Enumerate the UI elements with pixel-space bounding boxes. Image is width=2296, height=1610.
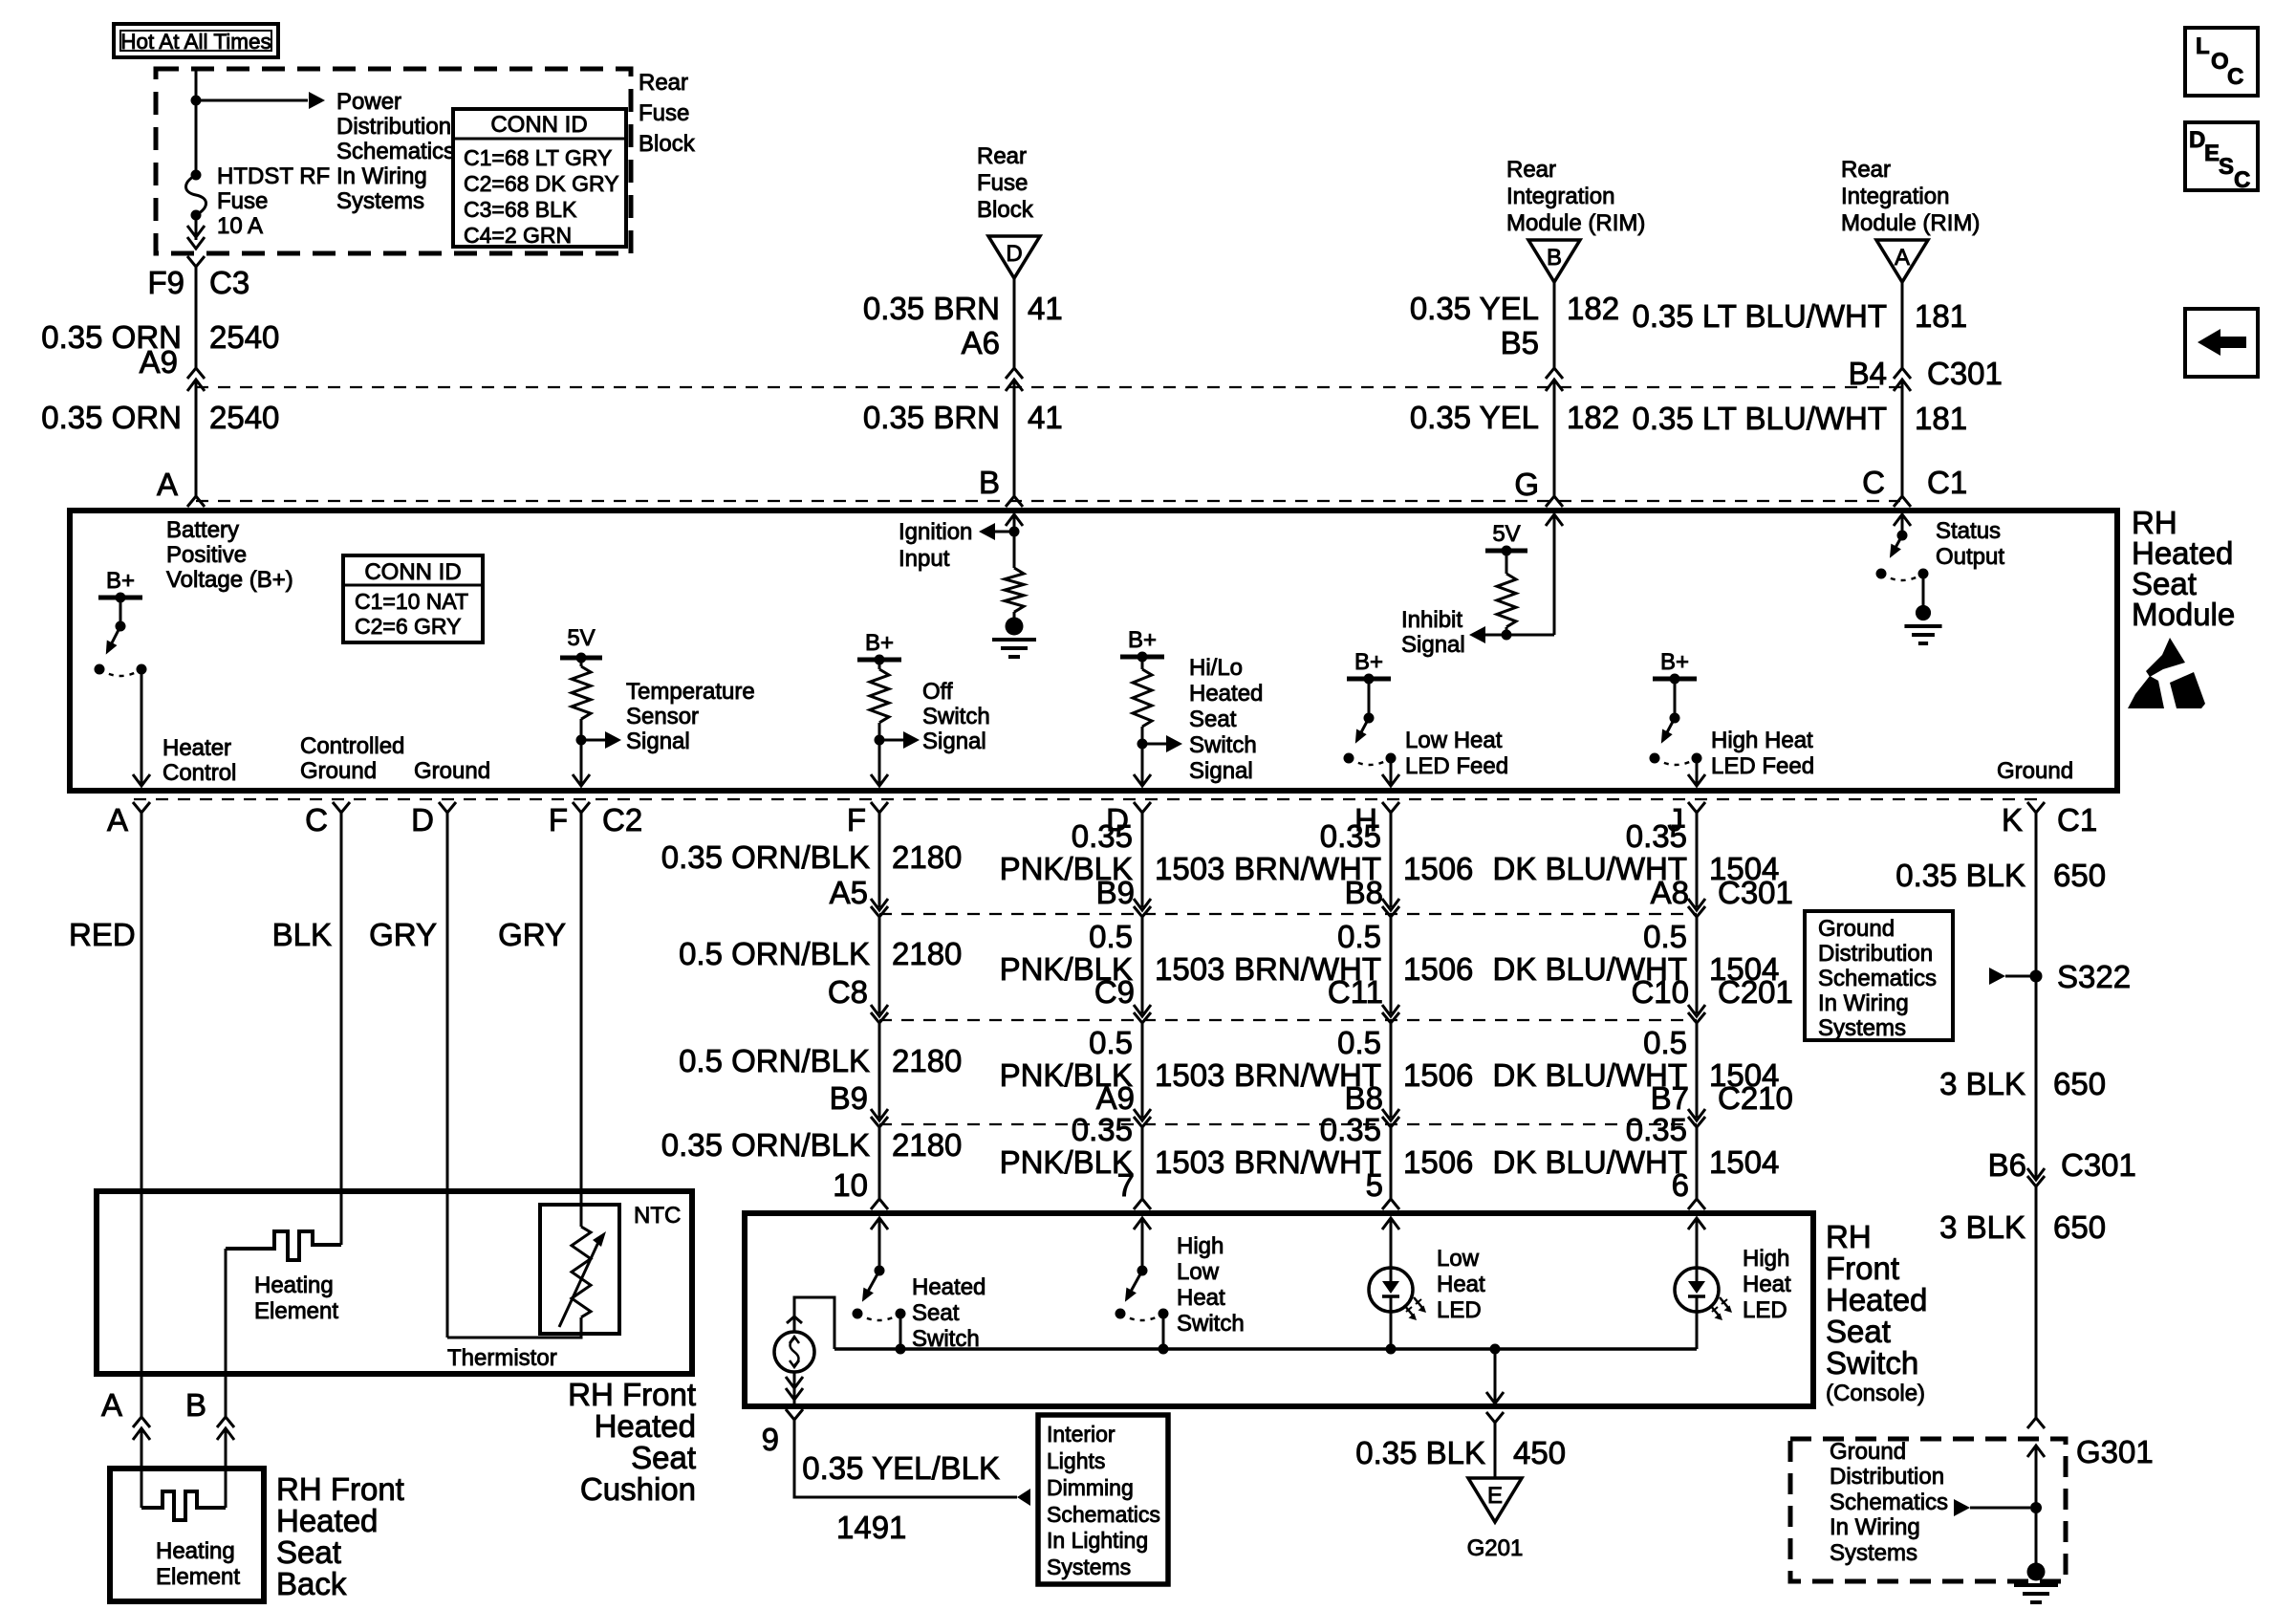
labels 0.35 PNK/BLK 1503 B9 row1 — [1000, 818, 1225, 910]
connector fork module pin D at x=1195 — [1106, 802, 1151, 838]
svg-text:Status: Status — [1936, 518, 2001, 544]
svg-text:RED: RED — [69, 917, 136, 952]
wire inhibit junction to pin G — [1506, 514, 1563, 635]
wire segment x=1775 to switch box — [1696, 1127, 1699, 1199]
svg-text:D: D — [411, 802, 434, 838]
svg-text:B: B — [1547, 245, 1562, 271]
svg-text:650: 650 — [2053, 1066, 2106, 1101]
svg-text:0.5: 0.5 — [1089, 1025, 1133, 1060]
wire 650 pin K to S322 — [2035, 813, 2038, 1179]
label RH Front Heated Seat Back — [276, 1471, 404, 1601]
wire segment x=1775 seg1 — [1696, 917, 1699, 1013]
DESC legend box — [2185, 122, 2258, 193]
wire fuse to F9 pin — [195, 215, 198, 240]
labels 0.5 BRN/WHT 1506 C11 row2 — [1234, 919, 1473, 1010]
svg-text:Controlled: Controlled — [300, 733, 404, 759]
splice S322 — [2030, 959, 2132, 994]
svg-text:Systems: Systems — [336, 188, 424, 214]
svg-text:10 A: 10 A — [217, 213, 263, 239]
svg-text:LED: LED — [1743, 1297, 1787, 1323]
svg-text:C2=6 GRY: C2=6 GRY — [355, 614, 461, 639]
svg-text:C: C — [1862, 465, 1885, 500]
svg-text:Heated: Heated — [595, 1408, 696, 1444]
wire bus to console ground pin — [1486, 1349, 1504, 1403]
dashed in-line connector row (upper) — [196, 386, 1902, 388]
svg-text:Off: Off — [922, 679, 953, 705]
svg-text:C2=68 DK GRY: C2=68 DK GRY — [464, 171, 619, 196]
svg-text:Schematics: Schematics — [1818, 966, 1937, 991]
label Heating Element (cushion) — [254, 1273, 338, 1324]
dashed module connector row C1 — [196, 500, 1900, 502]
LOC legend box — [2185, 28, 2258, 96]
svg-text:F: F — [847, 802, 866, 838]
svg-text:B+: B+ — [1660, 649, 1689, 675]
svg-text:RH Front: RH Front — [568, 1377, 696, 1412]
svg-text:1503: 1503 — [1155, 851, 1224, 886]
svg-text:Heating: Heating — [254, 1273, 334, 1298]
svg-text:Rear: Rear — [977, 143, 1027, 169]
svg-text:0.35: 0.35 — [1626, 818, 1687, 854]
wire segment x=920 seg1 — [878, 917, 881, 1013]
svg-text:L: L — [2196, 33, 2210, 59]
labels 0.35 DK BLU/WHT 1504 pin 6 row4 — [1492, 1112, 1779, 1203]
pin 10 entry arrow — [871, 1218, 888, 1271]
svg-text:Rear: Rear — [1506, 157, 1556, 183]
label Rear Fuse Block (triangle D) — [977, 143, 1034, 223]
wire segment x=1195 seg1 — [1141, 917, 1144, 1013]
svg-text:RH: RH — [1826, 1219, 1872, 1254]
connector fork at console pin x=1455 — [1382, 1199, 1399, 1209]
svg-text:3 BLK: 3 BLK — [1939, 1066, 2025, 1101]
reference arrow Inhibit Signal — [1469, 626, 1506, 643]
svg-text:C301: C301 — [2061, 1147, 2136, 1183]
wire 650 to G301 — [2035, 1186, 2038, 1418]
wire segment x=920 seg0 — [878, 813, 881, 907]
heating element R2 seat back — [141, 1469, 226, 1520]
svg-text:C3: C3 — [209, 265, 249, 300]
svg-text:Systems: Systems — [1830, 1540, 1917, 1566]
heated seat switch S2 — [853, 1266, 906, 1321]
dashed in-line connector row 2 — [879, 1019, 1697, 1021]
svg-text:1503: 1503 — [1155, 951, 1224, 987]
svg-text:A: A — [1895, 245, 1910, 271]
svg-text:Ground: Ground — [1997, 758, 2073, 784]
in-line break on lamp wire — [787, 1316, 802, 1323]
svg-text:6: 6 — [1672, 1167, 1689, 1203]
in-line connector on wire A — [133, 1417, 150, 1440]
labels 0.35 ORN/BLK 2180 A5 row1 — [661, 839, 963, 910]
svg-text:O: O — [2211, 49, 2229, 75]
in-line connector on wire B — [217, 1417, 234, 1440]
svg-text:0.5: 0.5 — [1643, 919, 1687, 954]
pin label F9 / C3 — [147, 265, 249, 300]
labels 0.35 ORN/BLK 2180 pin 10 row4 — [661, 1127, 963, 1203]
svg-text:Seat: Seat — [631, 1440, 696, 1475]
label B6 C301 — [1988, 1147, 2136, 1183]
svg-text:C8: C8 — [828, 974, 868, 1010]
Ground Distribution dashed box at G301 — [1790, 1439, 2066, 1581]
svg-text:Integration: Integration — [1506, 184, 1614, 209]
connector fork at console pin x=1775 — [1688, 1199, 1705, 1209]
resistor ignition input pull-down — [1005, 532, 1024, 612]
svg-text:A9: A9 — [140, 344, 178, 380]
svg-text:0.5: 0.5 — [1337, 1025, 1381, 1060]
RH Front Heated Seat Cushion box — [97, 1191, 692, 1374]
svg-text:B+: B+ — [1128, 627, 1157, 653]
resistor off switch pull-up — [870, 669, 889, 723]
reference arrow into interior lights box — [1017, 1489, 1030, 1506]
svg-text:Heat: Heat — [1437, 1272, 1485, 1297]
svg-text:Rear: Rear — [1841, 157, 1891, 183]
connector fork pin C of module — [1894, 496, 1911, 507]
svg-text:C201: C201 — [1718, 974, 1793, 1010]
junction dot battery feed — [191, 96, 202, 106]
svg-text:1506: 1506 — [1403, 1144, 1473, 1180]
svg-text:Positive: Positive — [166, 542, 247, 568]
svg-text:Schematics: Schematics — [1047, 1502, 1160, 1527]
labels 0.5 ORN/BLK 2180 B9 row3 — [679, 1043, 962, 1116]
svg-text:C1: C1 — [1927, 465, 1967, 500]
back navigation arrow box — [2185, 309, 2258, 377]
label Ignition Input — [899, 519, 972, 572]
svg-text:Fuse: Fuse — [217, 188, 268, 214]
svg-text:Seat: Seat — [1826, 1314, 1891, 1349]
wire 2540 upper segment — [195, 267, 198, 368]
svg-text:0.35 ORN: 0.35 ORN — [41, 400, 182, 435]
svg-text:A: A — [101, 1387, 122, 1423]
svg-text:A: A — [157, 467, 178, 502]
in-line connector x=1195 row1 — [1134, 1005, 1151, 1023]
in-line connector x=920 row0 — [871, 899, 888, 917]
high heat LED D2 — [1675, 1268, 1732, 1320]
svg-text:Low Heat: Low Heat — [1405, 728, 1503, 753]
resistor inhibit signal pull-up — [1497, 574, 1516, 627]
svg-text:Systems: Systems — [1818, 1015, 1906, 1041]
pin label C / C1 at module — [1862, 465, 1967, 500]
label Hi/Lo Heated Seat Switch Signal — [1189, 655, 1263, 784]
svg-text:0.35 YEL: 0.35 YEL — [1410, 400, 1539, 435]
svg-text:Inhibit: Inhibit — [1401, 607, 1462, 633]
svg-text:C: C — [2227, 64, 2243, 90]
svg-text:Module (RIM): Module (RIM) — [1506, 210, 1645, 236]
svg-text:Battery: Battery — [166, 517, 239, 543]
wire off switch signal to pin F — [871, 740, 888, 786]
low heat LED D1 — [1369, 1268, 1426, 1320]
svg-text:Module (RIM): Module (RIM) — [1841, 210, 1980, 236]
wire high heat LED feed to pin J — [1688, 758, 1705, 786]
svg-text:RH Front: RH Front — [276, 1471, 404, 1507]
svg-text:Signal: Signal — [626, 729, 690, 754]
svg-text:B+: B+ — [865, 630, 894, 656]
svg-text:2180: 2180 — [892, 1127, 962, 1163]
svg-text:C: C — [305, 802, 328, 838]
svg-text:2540: 2540 — [209, 400, 279, 435]
svg-text:2180: 2180 — [892, 839, 962, 875]
fuse HTDST RF 10 A — [186, 170, 206, 221]
wire 181 lower segment — [1901, 380, 1904, 496]
labels 0.5 PNK/BLK 1503 A9 row3 — [1000, 1025, 1225, 1116]
svg-text:BRN/WHT: BRN/WHT — [1234, 1144, 1381, 1180]
svg-text:F: F — [549, 802, 568, 838]
label Low Heat LED — [1437, 1246, 1485, 1323]
connector arrows at rear fuse block edge — [187, 226, 205, 249]
labels 0.5 DK BLU/WHT 1504 B7 C210 row3 — [1492, 1025, 1792, 1116]
svg-text:NTC: NTC — [634, 1203, 681, 1229]
svg-text:0.35: 0.35 — [1072, 1112, 1133, 1147]
svg-text:41: 41 — [1028, 400, 1063, 435]
svg-text:Thermistor: Thermistor — [447, 1345, 557, 1371]
svg-text:Heated: Heated — [276, 1503, 378, 1538]
svg-text:C4=2 GRN: C4=2 GRN — [464, 223, 572, 248]
svg-text:0.35: 0.35 — [1072, 818, 1133, 854]
svg-text:Sensor: Sensor — [626, 704, 699, 729]
svg-text:CONN ID: CONN ID — [364, 559, 461, 585]
label Rear Integration Module RIM (B) — [1506, 157, 1645, 236]
wire pin B cushion to seat back — [225, 1374, 227, 1469]
svg-text:B8: B8 — [1345, 875, 1383, 910]
svg-text:C3=68 BLK: C3=68 BLK — [464, 197, 577, 222]
svg-text:Schematics: Schematics — [1830, 1490, 1948, 1515]
svg-text:LED Feed: LED Feed — [1711, 753, 1814, 779]
label 0.35 BLK 450 — [1355, 1435, 1566, 1470]
svg-text:Fuse: Fuse — [639, 100, 689, 126]
label High Low Heat Switch — [1177, 1233, 1245, 1337]
svg-text:2180: 2180 — [892, 1043, 962, 1078]
wire high heat LED to bus — [1696, 1312, 1699, 1349]
label Low Heat LED Feed — [1405, 728, 1508, 779]
label 0.35 YEL 182 (lower) — [1410, 400, 1619, 435]
connector fork at console pin x=920 — [871, 1199, 888, 1209]
svg-text:A5: A5 — [830, 875, 868, 910]
reference arrow to G301 ground point — [1954, 1499, 2042, 1516]
svg-text:Block: Block — [977, 197, 1034, 223]
svg-text:0.35 BLK: 0.35 BLK — [1355, 1435, 1485, 1470]
resistor temperature sensor pull-up — [572, 666, 591, 719]
svg-text:2540: 2540 — [209, 319, 279, 355]
wire BLK pin C to heating element — [340, 813, 343, 1245]
svg-text:3 BLK: 3 BLK — [1939, 1209, 2025, 1245]
svg-text:High: High — [1743, 1246, 1789, 1272]
svg-text:Heater: Heater — [162, 735, 231, 761]
svg-text:5V: 5V — [567, 625, 595, 651]
wire segment x=1455 seg0 — [1390, 813, 1393, 907]
svg-text:K: K — [2002, 802, 2023, 838]
label Rear Fuse Block — [639, 70, 696, 157]
svg-text:41: 41 — [1028, 291, 1063, 326]
svg-text:1491: 1491 — [836, 1510, 906, 1545]
connector fork at G301 — [2027, 1418, 2045, 1428]
in-line connector x=1775 row1 — [1688, 1005, 1705, 1023]
svg-text:1503: 1503 — [1155, 1144, 1224, 1180]
connector fork module pin J at x=1775 — [1668, 802, 1706, 838]
in-line connector A6 — [1006, 368, 1023, 391]
svg-text:450: 450 — [1513, 1435, 1566, 1470]
svg-text:Heated: Heated — [1189, 681, 1263, 707]
svg-text:0.35 YEL/BLK: 0.35 YEL/BLK — [802, 1450, 1000, 1486]
svg-text:LED Feed: LED Feed — [1405, 753, 1508, 779]
wire segment x=1455 seg1 — [1390, 917, 1393, 1013]
svg-text:0.35 LT BLU/WHT: 0.35 LT BLU/WHT — [1632, 298, 1887, 334]
wire element to pin B of cushion — [225, 1249, 227, 1374]
svg-text:E: E — [1487, 1483, 1503, 1509]
pin A of seat cushion — [101, 1387, 122, 1423]
wire 450 to G201 — [1494, 1423, 1497, 1478]
connector fork pin A of module — [187, 496, 205, 507]
wire thermistor to pin D return — [447, 1317, 581, 1338]
wire heater control to pin A — [133, 669, 150, 786]
svg-text:Systems: Systems — [1047, 1555, 1131, 1579]
svg-text:650: 650 — [2053, 1209, 2106, 1245]
svg-text:Heating: Heating — [156, 1538, 235, 1564]
svg-text:Rear: Rear — [639, 70, 688, 96]
in-line connector B5 — [1546, 368, 1563, 391]
svg-text:C: C — [2234, 167, 2250, 193]
status output switch — [1876, 531, 1929, 581]
label 0.35 ORN 2540 (lower) — [41, 400, 279, 435]
in-line connector C301 ground wire — [2027, 1168, 2045, 1186]
svg-text:High Heat: High Heat — [1711, 728, 1813, 753]
svg-text:0.5: 0.5 — [1643, 1025, 1687, 1060]
svg-text:BLK: BLK — [272, 917, 332, 952]
svg-text:181: 181 — [1915, 298, 1967, 334]
heater control switch Q1 — [95, 621, 147, 677]
svg-text:Seat: Seat — [912, 1300, 960, 1326]
ignition input arrow at pin B — [979, 514, 1023, 540]
pin 5 entry arrow — [1382, 1218, 1399, 1268]
connector fork module pin A at x=148 — [107, 802, 150, 838]
wire 1491 to interior lights dimming — [794, 1420, 1017, 1497]
svg-text:Switch: Switch — [1177, 1311, 1245, 1337]
svg-text:Voltage (B+): Voltage (B+) — [166, 567, 293, 593]
svg-text:Hot At All Times: Hot At All Times — [120, 30, 271, 54]
svg-text:C301: C301 — [1927, 356, 2003, 391]
svg-text:C301: C301 — [1718, 875, 1793, 910]
svg-text:In Wiring: In Wiring — [336, 163, 427, 189]
svg-text:0.5: 0.5 — [1089, 919, 1133, 954]
svg-text:Ground: Ground — [414, 758, 490, 784]
svg-text:Switch: Switch — [1189, 732, 1257, 758]
high heat LED feed switch — [1650, 713, 1702, 766]
RH Front Heated Seat Switch console box S1 — [745, 1213, 1813, 1406]
wire temperature sensor to pin F — [573, 740, 590, 786]
CONN ID table of module — [343, 555, 483, 642]
svg-text:Signal: Signal — [1189, 758, 1253, 784]
svg-text:1503: 1503 — [1155, 1057, 1224, 1093]
svg-text:650: 650 — [2053, 858, 2106, 893]
svg-text:B9: B9 — [830, 1080, 868, 1116]
svg-text:B+: B+ — [1354, 649, 1383, 675]
svg-text:Heat: Heat — [1177, 1285, 1225, 1311]
svg-text:Element: Element — [254, 1298, 338, 1324]
svg-text:C11: C11 — [1328, 974, 1383, 1010]
svg-text:Switch: Switch — [1826, 1345, 1918, 1381]
svg-text:B: B — [185, 1387, 206, 1423]
thermistor box NTC — [540, 1205, 619, 1334]
off-page connector triangle D to Rear Fuse Block — [988, 236, 1040, 278]
label Battery Positive Voltage B+ — [166, 517, 293, 593]
svg-text:B8: B8 — [1345, 1080, 1383, 1116]
module bottom connector row C1/C2 dashed line — [134, 798, 2046, 800]
wire segment x=1775 seg0 — [1696, 813, 1699, 907]
svg-text:Hi/Lo: Hi/Lo — [1189, 655, 1243, 681]
connector fork module pin H at x=1455 — [1354, 802, 1399, 838]
svg-text:B+: B+ — [106, 568, 135, 594]
low heat LED feed switch — [1344, 713, 1397, 766]
label Inhibit Signal — [1401, 607, 1465, 658]
svg-text:0.35 BRN: 0.35 BRN — [863, 400, 1000, 435]
pin B of seat cushion — [185, 1387, 206, 1423]
label Controlled Ground — [300, 733, 404, 784]
label RH Heated Seat Module — [2132, 505, 2235, 632]
wire segment x=1195 to switch box — [1141, 1127, 1144, 1199]
svg-text:GRY: GRY — [498, 917, 566, 952]
power feed label box: Hot At All Times — [114, 24, 278, 57]
labels 0.5 PNK/BLK 1503 C9 row2 — [1000, 919, 1225, 1010]
in-line connector x=1195 row2 — [1134, 1109, 1151, 1127]
labels 0.5 DK BLU/WHT 1504 C10 C201 row2 — [1492, 919, 1792, 1010]
svg-text:Heated: Heated — [1826, 1282, 1927, 1317]
svg-text:0.5 ORN/BLK: 0.5 ORN/BLK — [679, 936, 870, 971]
connector fork console ground pin — [1486, 1412, 1504, 1423]
svg-text:GRY: GRY — [369, 917, 437, 952]
svg-text:Block: Block — [639, 131, 696, 157]
wire segment x=920 seg2 — [878, 1023, 881, 1118]
ground symbol G301 — [2027, 1563, 2046, 1581]
B+ supply for hi/lo switch signal — [1120, 627, 1164, 669]
wire hi/lo switch signal to pin D — [1134, 744, 1151, 786]
switch ground bus — [834, 1347, 1697, 1351]
connector fork console pin 9 — [762, 1409, 803, 1457]
svg-text:G201: G201 — [1467, 1535, 1524, 1561]
svg-text:Front: Front — [1826, 1251, 1899, 1286]
svg-text:Input: Input — [899, 546, 950, 572]
5V supply for temperature sensor — [560, 625, 602, 666]
svg-text:B4: B4 — [1849, 356, 1887, 391]
svg-text:Dimming: Dimming — [1047, 1475, 1134, 1500]
svg-text:F9: F9 — [147, 265, 184, 300]
connector fork pin B of module — [1006, 496, 1023, 507]
svg-text:Heated: Heated — [912, 1274, 986, 1300]
label RH Front Heated Seat Switch (Console) — [1826, 1219, 1927, 1406]
svg-text:Module: Module — [2132, 597, 2235, 632]
svg-text:Distribution: Distribution — [1830, 1464, 1944, 1490]
wire segment x=1775 seg2 — [1696, 1023, 1699, 1118]
wire pin A cushion to seat back — [141, 1374, 143, 1469]
heating element R1 seat cushion — [226, 1231, 341, 1260]
in-line connector x=1775 row0 — [1688, 899, 1705, 917]
connector fork module pin F at x=920 — [847, 802, 888, 838]
svg-text:Power: Power — [336, 89, 401, 115]
B+ supply for high heat LED feed — [1653, 649, 1697, 718]
svg-text:C1: C1 — [2057, 802, 2097, 838]
svg-text:B7: B7 — [1651, 1080, 1689, 1116]
svg-text:E: E — [2204, 141, 2220, 166]
svg-text:Seat: Seat — [1189, 707, 1237, 732]
svg-text:B6: B6 — [1988, 1147, 2026, 1183]
wire RED pin A to heated seat cushion — [141, 813, 143, 1374]
svg-text:(Console): (Console) — [1826, 1381, 1925, 1406]
svg-text:C1=10 NAT: C1=10 NAT — [355, 589, 468, 614]
B+ supply for heater control switch — [98, 568, 142, 626]
off-page connector triangle B to RIM — [1528, 240, 1580, 282]
wire high low heat switch to bus — [1159, 1314, 1169, 1355]
svg-text:B5: B5 — [1501, 325, 1539, 360]
svg-text:Seat: Seat — [276, 1534, 341, 1570]
svg-text:Integration: Integration — [1841, 184, 1949, 209]
dashed in-line connector row 1 — [879, 913, 1697, 915]
svg-text:0.5 ORN/BLK: 0.5 ORN/BLK — [679, 1043, 870, 1078]
ground symbol status output — [1904, 574, 1941, 643]
